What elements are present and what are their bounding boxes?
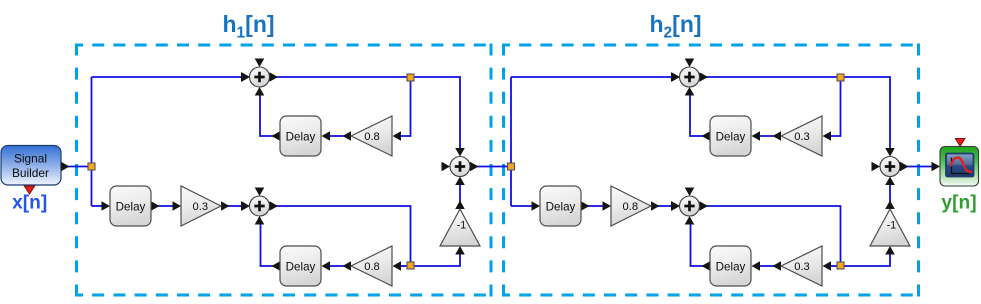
svg-text:h1[n]: h1[n]: [222, 11, 274, 42]
svg-text:0.3: 0.3: [193, 201, 209, 213]
svg-text:Delay: Delay: [286, 130, 316, 143]
svg-text:Delay: Delay: [716, 130, 746, 143]
svg-text:Delay: Delay: [716, 260, 746, 273]
svg-text:Delay: Delay: [546, 200, 576, 213]
svg-text:Delay: Delay: [116, 200, 146, 213]
svg-text:Delay: Delay: [286, 260, 316, 273]
svg-text:0.3: 0.3: [794, 131, 810, 143]
svg-text:-1: -1: [457, 220, 467, 232]
svg-text:-1: -1: [887, 220, 897, 232]
svg-text:Builder: Builder: [12, 166, 49, 180]
svg-text:x[n]: x[n]: [12, 193, 47, 214]
svg-text:h2[n]: h2[n]: [649, 11, 701, 42]
svg-text:0.3: 0.3: [794, 261, 810, 273]
svg-text:0.8: 0.8: [623, 201, 639, 213]
svg-text:0.8: 0.8: [364, 131, 380, 143]
svg-text:y[n]: y[n]: [941, 193, 976, 214]
svg-text:0.8: 0.8: [364, 261, 380, 273]
svg-text:Signal: Signal: [14, 152, 47, 166]
